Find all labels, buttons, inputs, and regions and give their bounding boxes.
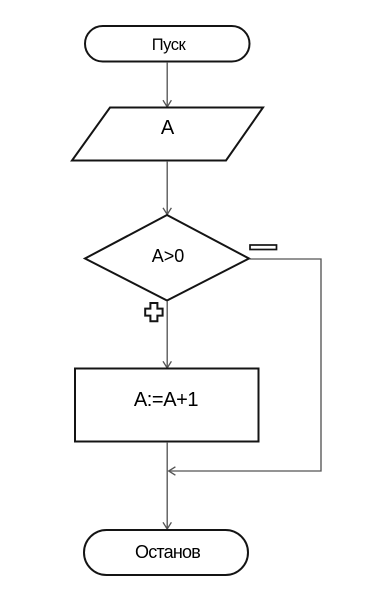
wire: decision right to merge (feedback) (171, 259, 322, 471)
terminator STOP (Останов) (84, 530, 248, 575)
decision diamond A>0 (85, 215, 249, 301)
svg-text:A>0: A>0 (152, 246, 185, 266)
wire: Пуск to parallelogram (166, 62, 168, 107)
io parallelogram А (72, 108, 263, 161)
svg-text:А: А (161, 117, 175, 139)
label minus (no branch) (250, 245, 277, 250)
wire: parallelogram to decision (166, 161, 168, 214)
arrowhead into process (163, 361, 171, 368)
process rectangle А:=А+1 (75, 369, 259, 442)
arrowhead into merge point (169, 467, 176, 475)
label plus (yes branch) (145, 303, 162, 321)
svg-text:А:=А+1: А:=А+1 (134, 389, 199, 411)
arrowhead into stop (163, 522, 171, 529)
wire: decision to process (166, 301, 168, 368)
arrowhead into parallelogram (163, 100, 171, 107)
terminator START (Пуск) (85, 26, 250, 62)
svg-text:Пуск: Пуск (152, 36, 187, 54)
arrowhead into decision (163, 208, 171, 215)
wire: process to stop (166, 442, 168, 529)
svg-text:Останов: Останов (135, 542, 200, 562)
